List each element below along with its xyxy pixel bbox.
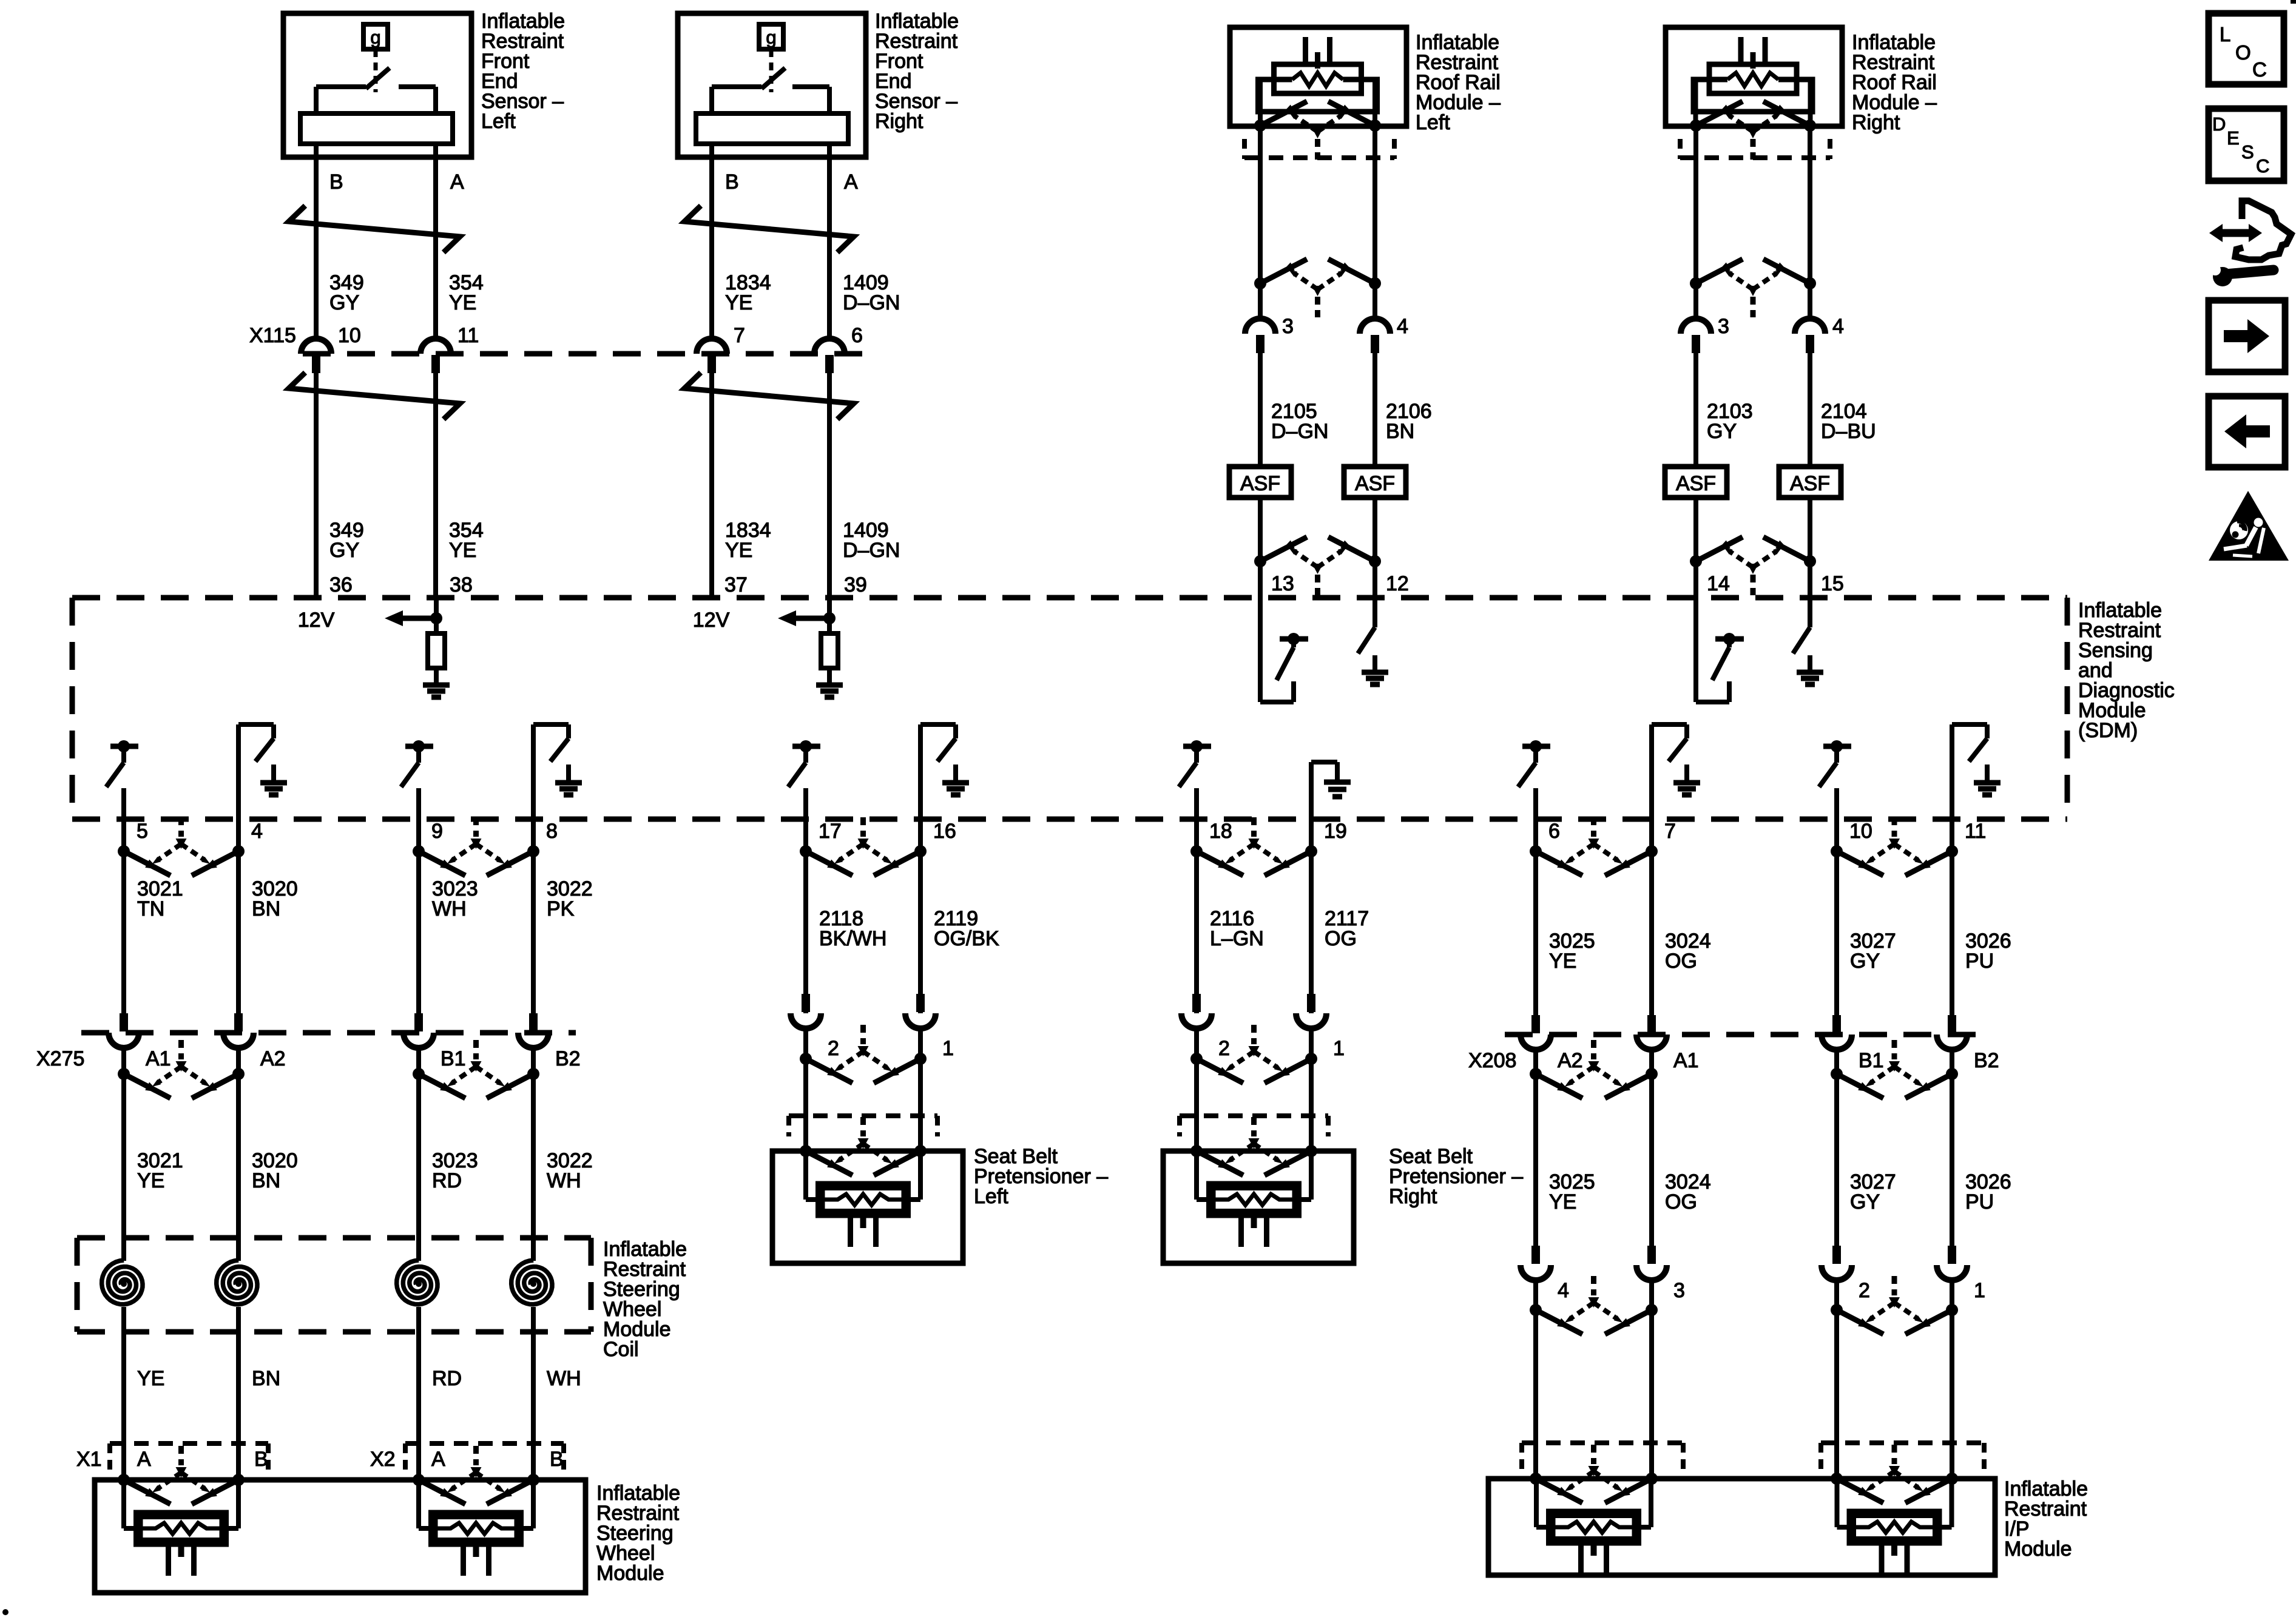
SDM module dashed box xyxy=(72,598,2067,819)
svg-text:ASF: ASF xyxy=(1240,472,1280,495)
wire 3027 GY (below X208) xyxy=(1834,1050,1839,1246)
pretensioner left pin 1 terminal xyxy=(905,994,936,1028)
svg-text:E: E xyxy=(2227,127,2240,149)
switch contact (pin 13 loop) xyxy=(1277,633,1308,680)
I/P right in-line connector dashed box xyxy=(1821,1443,1984,1473)
connector X275 pin B1 terminal xyxy=(403,1013,434,1048)
wire pin 39 interior segment xyxy=(827,598,832,633)
SDM passenger squib switch (pin 10) xyxy=(1819,740,1851,819)
label: Inflatable Restraint Steering Wheel Module Coil xyxy=(603,1238,687,1361)
SDM I/P squib switch (pin 6) xyxy=(1518,740,1550,819)
label: Seat Belt Pretensioner - Left xyxy=(974,1145,1108,1208)
svg-text:OG: OG xyxy=(1325,927,1357,950)
inflatable restraint steering wheel module box xyxy=(95,1480,586,1593)
wire 3024 OG (below X208) xyxy=(1649,1050,1654,1246)
pretensioner right in-line connector dashed box xyxy=(1180,1116,1328,1136)
shorting clip at pretensioner left connector xyxy=(800,1117,927,1175)
svg-text:Left: Left xyxy=(974,1185,1008,1208)
wire label 3022 PK xyxy=(547,877,593,920)
ground (SDM internal, pin 38) xyxy=(423,668,450,697)
wire label 3024 OG xyxy=(1665,930,1711,973)
label: Inflatable Restraint Steering Wheel Module xyxy=(596,1482,680,1585)
front end sensor left box xyxy=(283,13,471,157)
svg-text:OG: OG xyxy=(1665,1190,1697,1214)
SDM pretensioner left switch (pin 17) xyxy=(788,740,820,819)
shorting clip below SDM pins 5/4 xyxy=(118,817,245,876)
twisted pair symbol (sensor right upper) xyxy=(684,206,854,252)
svg-text:X2: X2 xyxy=(370,1448,396,1471)
wire label 2106 BN xyxy=(1386,400,1432,443)
airbag warning triangle icon xyxy=(2209,491,2289,561)
svg-text:B2: B2 xyxy=(1974,1049,1999,1072)
svg-text:X115: X115 xyxy=(249,324,296,347)
wire 3022 PK xyxy=(531,819,536,1013)
front end sensor left g symbol xyxy=(363,24,388,49)
wire label 2104 D-BU xyxy=(1821,400,1876,443)
switch contact (pin 14 loop) xyxy=(1712,633,1744,680)
shorting clip above pins 3/4 (right) xyxy=(1690,259,1816,317)
svg-text:Module: Module xyxy=(2004,1538,2072,1561)
svg-text:WH: WH xyxy=(547,1367,581,1390)
roof rail right in-line connector dashed box xyxy=(1680,139,1830,159)
wire RD (below coil) xyxy=(416,1307,421,1480)
shorting clip below X208 A2/A1 xyxy=(1530,1040,1658,1098)
page mark dot xyxy=(2,1609,8,1615)
svg-text:12: 12 xyxy=(1386,572,1409,595)
ASF box (wire 2105) xyxy=(1229,467,1291,498)
svg-text:37: 37 xyxy=(724,573,748,596)
switch lever (pin 15) xyxy=(1793,627,1810,653)
wire to pretensioner right (1) xyxy=(1309,1028,1314,1151)
svg-text:B: B xyxy=(254,1448,268,1471)
svg-text:Left: Left xyxy=(1416,111,1450,134)
wire label 3023 WH xyxy=(432,877,478,920)
connector X208 pin B1 terminal xyxy=(1822,1015,1852,1050)
connector X115 pin 10 terminal xyxy=(301,339,331,373)
svg-text:4: 4 xyxy=(1558,1279,1569,1302)
wire 3025 YE xyxy=(1533,819,1538,1015)
wire label 3026 PU xyxy=(1965,930,2011,973)
pin 14 interior hook wire xyxy=(1696,598,1729,702)
front end sensor left element xyxy=(300,113,453,144)
label: Inflatable Restraint Roof Rail Module - Left xyxy=(1416,31,1501,134)
shorting clip below pretensioner left pins xyxy=(800,1025,927,1083)
shorting clip below SDM pins 6/7 xyxy=(1530,817,1658,876)
I/P airbag squib left xyxy=(1536,1479,1651,1575)
svg-text:11: 11 xyxy=(1965,820,1986,843)
SDM pretensioner right return hook and ground (pin 19) xyxy=(1311,762,1351,819)
wire label 354 YE xyxy=(449,271,484,314)
ground (SDM internal, pin 15) xyxy=(1797,655,1823,684)
wire label 3025 YE (2) xyxy=(1549,1170,1595,1214)
svg-text:B1: B1 xyxy=(1859,1049,1884,1072)
SDM driver squib switch (pin 5) xyxy=(106,740,138,819)
wire 354 YE lower segment xyxy=(433,373,438,598)
wire 2117 OG xyxy=(1309,819,1314,1013)
wire 2105 D-GN lower segment xyxy=(1258,498,1263,598)
wire label 3022 WH xyxy=(547,1149,593,1192)
wire 2103 GY upper segment xyxy=(1693,126,1698,319)
svg-text:GY: GY xyxy=(1707,420,1737,443)
wire label 3026 PU (2) xyxy=(1965,1170,2011,1214)
pretensioner right pin 1 terminal xyxy=(1296,994,1326,1028)
roof rail left pin 3 terminal xyxy=(1245,319,1275,353)
svg-text:X1: X1 xyxy=(76,1448,102,1471)
svg-text:YE: YE xyxy=(1549,1190,1576,1214)
svg-text:GY: GY xyxy=(329,539,359,562)
svg-text:A: A xyxy=(431,1448,445,1471)
svg-text:Left: Left xyxy=(481,110,516,133)
resistor (SDM internal, pin 39) xyxy=(821,633,838,668)
label: Seat Belt Pretensioner - Right xyxy=(1389,1145,1523,1208)
svg-text:RD: RD xyxy=(432,1169,462,1192)
wire 2119 OG/BK xyxy=(918,819,923,1013)
shorting clip below SDM pins 9/8 xyxy=(413,817,539,876)
wire label 1409 D-GN (lower) xyxy=(843,519,900,562)
svg-text:3: 3 xyxy=(1718,315,1729,338)
shorting clip below SDM pins 10/11 xyxy=(1831,817,1958,876)
svg-text:PK: PK xyxy=(547,897,575,920)
shorting clip below I/P pins 4/3 xyxy=(1530,1276,1658,1334)
seat belt pretensioner right box xyxy=(1163,1151,1354,1263)
LOC icon box xyxy=(2209,13,2284,84)
wire BN (below coil) xyxy=(236,1307,241,1480)
svg-text:17: 17 xyxy=(819,820,842,843)
connector X115 pin 11 terminal xyxy=(420,339,451,373)
twisted pair symbol (sensor left lower) xyxy=(289,373,460,419)
shorting clip below I/P pins 2/1 xyxy=(1831,1276,1958,1334)
svg-text:OG/BK: OG/BK xyxy=(934,927,999,950)
svg-text:A2: A2 xyxy=(260,1047,286,1070)
coil (wire 3023) xyxy=(397,1260,437,1305)
svg-text:1: 1 xyxy=(942,1037,954,1060)
svg-text:D–GN: D–GN xyxy=(843,291,900,314)
wire label 3020 BN xyxy=(252,877,298,920)
svg-text:ASF: ASF xyxy=(1790,472,1830,495)
wire to pretensioner left (1) xyxy=(918,1028,923,1151)
wire label 2118 BK/WH xyxy=(819,907,886,950)
svg-text:2: 2 xyxy=(1859,1279,1870,1302)
front end sensor right switch xyxy=(712,49,829,113)
front end sensor left switch xyxy=(316,49,436,113)
svg-text:GY: GY xyxy=(1850,950,1880,973)
roof rail right pin 4 terminal xyxy=(1795,319,1825,353)
connector X1 dashed box xyxy=(110,1443,268,1473)
pin 13 interior hook wire xyxy=(1260,598,1294,702)
svg-text:WH: WH xyxy=(432,897,467,920)
twisted pair symbol (sensor left upper) xyxy=(289,206,460,252)
wire 2104 D-BU mid segment xyxy=(1808,353,1812,467)
switch lever (pin 12) xyxy=(1358,627,1375,653)
svg-text:O: O xyxy=(2235,41,2251,64)
svg-text:YE: YE xyxy=(449,539,476,562)
pretensioner left pin 2 terminal xyxy=(791,994,821,1028)
svg-text:1: 1 xyxy=(1333,1037,1345,1060)
wire 2118 BK/WH xyxy=(803,819,808,1013)
svg-text:X275: X275 xyxy=(36,1047,84,1070)
shorting clip at pretensioner right connector xyxy=(1190,1117,1317,1175)
svg-text:YE: YE xyxy=(137,1367,164,1390)
svg-text:B: B xyxy=(725,170,739,194)
SDM pretensioner right switch (pin 18) xyxy=(1179,740,1211,819)
wire label 349 GY (lower) xyxy=(329,519,364,562)
svg-text:4: 4 xyxy=(251,820,263,843)
svg-text:YE: YE xyxy=(449,291,476,314)
svg-text:Right: Right xyxy=(1389,1185,1437,1208)
svg-text:Coil: Coil xyxy=(603,1338,639,1361)
shorting clip below pretensioner right pins xyxy=(1190,1025,1317,1083)
wire 3027 GY xyxy=(1834,819,1839,1015)
voltage arrow at pin 39 xyxy=(778,610,829,626)
front end sensor right box xyxy=(678,13,866,157)
svg-text:14: 14 xyxy=(1707,572,1730,595)
wire label 3020 BN (2) xyxy=(252,1149,298,1192)
svg-text:D–BU: D–BU xyxy=(1821,420,1876,443)
ASF box (wire 2106) xyxy=(1344,467,1406,498)
svg-text:7: 7 xyxy=(734,324,745,347)
shorting clip at I/P module connector (right) xyxy=(1831,1445,1958,1503)
wire pin 38 interior segment xyxy=(434,598,439,633)
svg-text:5: 5 xyxy=(137,820,148,843)
SDM driver squib 2 return switch and ground (pin 8) xyxy=(533,724,582,819)
wire to pretensioner left (2) xyxy=(803,1028,808,1151)
label: Inflatable Restraint Sensing and Diagnostic Module (SDM) xyxy=(2078,599,2175,742)
wire 2106 BN upper segment xyxy=(1373,126,1377,319)
page corner mark xyxy=(2291,0,2296,4)
svg-text:C: C xyxy=(2256,155,2269,177)
svg-text:S: S xyxy=(2241,141,2254,163)
seat belt pretensioner left squib xyxy=(806,1151,920,1247)
wire label 354 YE (lower) xyxy=(449,519,484,562)
svg-text:15: 15 xyxy=(1821,572,1844,595)
driver airbag squib 1 xyxy=(124,1480,238,1576)
svg-text:B: B xyxy=(329,170,343,194)
seat belt pretensioner right squib xyxy=(1197,1151,1311,1247)
svg-text:YE: YE xyxy=(137,1169,164,1192)
wire label 3023 RD xyxy=(432,1149,478,1192)
wire label 2119 OG/BK xyxy=(934,907,999,950)
wire label 1834 YE (lower) xyxy=(725,519,771,562)
shorting clip below X275 B1/B2 xyxy=(413,1040,539,1098)
svg-text:YE: YE xyxy=(725,539,752,562)
wire 3020 BN (below X275) xyxy=(236,1048,241,1261)
svg-text:PU: PU xyxy=(1965,950,1994,973)
wire 2103 GY lower segment xyxy=(1693,498,1698,598)
wire label 2117 OG xyxy=(1325,907,1369,950)
wire to I/P module (4) xyxy=(1533,1280,1538,1479)
shorting clip below X208 B1/B2 xyxy=(1831,1040,1958,1098)
svg-text:YE: YE xyxy=(1549,950,1576,973)
label: Inflatable Restraint Roof Rail Module - Right xyxy=(1852,31,1937,134)
svg-text:PU: PU xyxy=(1965,1190,1994,1214)
connector X208 dashed line xyxy=(1505,1032,1978,1038)
coil (wire 3021) xyxy=(102,1260,143,1305)
wire 2105 D-GN upper segment xyxy=(1258,126,1263,319)
svg-text:6: 6 xyxy=(1548,820,1560,843)
wire 3023 RD xyxy=(416,1048,421,1261)
shorting clip at steering module connector X1 xyxy=(118,1446,245,1504)
svg-text:9: 9 xyxy=(431,820,443,843)
SDM driver squib return switch and ground (pin 4) xyxy=(238,724,287,819)
connector X275 pin A1 terminal xyxy=(109,1013,139,1048)
SDM I/P squib return switch and ground (pin 7) xyxy=(1652,724,1700,819)
svg-text:BK/WH: BK/WH xyxy=(819,927,886,950)
DESC icon box xyxy=(2209,109,2284,181)
connector X115 pin 6 terminal xyxy=(814,339,845,373)
svg-text:38: 38 xyxy=(450,573,473,596)
wire label 1834 YE xyxy=(725,271,771,314)
shorting clip above pins 3/4 (left) xyxy=(1254,259,1381,317)
ASF box (wire 2103) xyxy=(1665,467,1727,498)
svg-text:BN: BN xyxy=(252,1367,280,1390)
wire WH (below coil) xyxy=(531,1307,536,1480)
wire label 3027 GY (2) xyxy=(1850,1170,1896,1214)
shorting clip below SDM pins 17/16 xyxy=(800,817,927,876)
svg-text:4: 4 xyxy=(1397,315,1408,338)
svg-text:18: 18 xyxy=(1209,820,1232,843)
connector X208 pin A2 terminal xyxy=(1521,1015,1551,1050)
wire label 2116 L-GN xyxy=(1210,907,1264,950)
svg-text:13: 13 xyxy=(1271,572,1294,595)
wire 2105 D-GN mid segment xyxy=(1258,353,1263,467)
svg-text:11: 11 xyxy=(458,324,479,347)
shorting clip below SDM pins 18/19 xyxy=(1190,817,1317,876)
inflatable restraint roof rail module right box xyxy=(1666,27,1842,126)
coil (wire 3022) xyxy=(512,1260,552,1305)
connector X208 pin B2 terminal xyxy=(1937,1015,1967,1050)
back arrow icon box xyxy=(2209,396,2285,467)
SDM passenger squib return switch and ground (pin 11) xyxy=(1952,724,2001,819)
ground (SDM internal, pin 39) xyxy=(816,668,843,697)
svg-text:A: A xyxy=(844,170,858,194)
wire label 3024 OG (2) xyxy=(1665,1170,1711,1214)
connector X275 dashed line xyxy=(81,1030,576,1036)
ASF box (wire 2104) xyxy=(1779,467,1841,498)
wire 3021 TN xyxy=(121,819,126,1013)
harness repair icon (double arrow, connector outline and wrench) xyxy=(2209,201,2291,286)
svg-text:39: 39 xyxy=(844,573,867,596)
wire YE xyxy=(121,1307,126,1480)
svg-text:L: L xyxy=(2220,23,2230,46)
svg-text:g: g xyxy=(766,27,776,48)
svg-text:6: 6 xyxy=(851,324,863,347)
svg-text:GY: GY xyxy=(1850,1190,1880,1214)
svg-text:ASF: ASF xyxy=(1355,472,1395,495)
junction dot pin 38 xyxy=(430,612,442,624)
shorting clip at roof rail left module connector xyxy=(1254,101,1381,160)
svg-text:BN: BN xyxy=(252,897,280,920)
svg-text:10: 10 xyxy=(1849,820,1872,843)
wire 2116 L-GN xyxy=(1194,819,1199,1013)
wire 3022 WH (below X275) xyxy=(531,1048,536,1261)
wire label 3021 TN xyxy=(137,877,183,920)
svg-text:BN: BN xyxy=(252,1169,280,1192)
svg-text:2: 2 xyxy=(1218,1037,1230,1060)
resistor (SDM internal, pin 38) xyxy=(428,633,445,668)
inflatable restraint roof rail module left box xyxy=(1230,27,1406,126)
svg-text:10: 10 xyxy=(338,324,361,347)
svg-text:A: A xyxy=(137,1448,151,1471)
wire 3021 YE xyxy=(121,1048,126,1261)
wire 3024 OG xyxy=(1649,819,1654,1015)
I/P module pin 3 terminal xyxy=(1636,1246,1667,1280)
shorting clip below X275 A1/A2 xyxy=(118,1040,245,1098)
svg-text:X208: X208 xyxy=(1468,1049,1516,1072)
junction dot pin 39 xyxy=(823,612,836,624)
svg-text:2: 2 xyxy=(828,1037,839,1060)
wire to pretensioner right (2) xyxy=(1194,1028,1199,1151)
wire to I/P module (2) xyxy=(1834,1280,1839,1479)
svg-text:A: A xyxy=(450,170,464,194)
connector X115 pin 7 terminal xyxy=(697,339,727,373)
svg-text:D–GN: D–GN xyxy=(843,539,900,562)
shorting clip above SDM pins 13/12 xyxy=(1254,537,1381,595)
roof rail left in-line connector dashed box xyxy=(1244,139,1394,159)
wire 354 YE upper segment xyxy=(433,144,438,339)
connector X275 pin A2 terminal xyxy=(223,1013,254,1048)
svg-text:C: C xyxy=(2252,58,2267,81)
wire 349 GY upper segment xyxy=(314,144,319,339)
inflatable restraint I/P module box xyxy=(1488,1479,1995,1575)
front end sensor right g symbol xyxy=(759,24,783,49)
svg-text:B2: B2 xyxy=(555,1047,581,1070)
I/P left in-line connector dashed box xyxy=(1522,1443,1683,1473)
svg-text:4: 4 xyxy=(1832,315,1844,338)
SDM pretensioner left return switch and ground (pin 16) xyxy=(920,724,969,819)
svg-text:L–GN: L–GN xyxy=(1210,927,1264,950)
svg-text:19: 19 xyxy=(1324,820,1347,843)
svg-text:TN: TN xyxy=(137,897,164,920)
wire label 2103 GY xyxy=(1707,400,1753,443)
wire 349 GY lower segment xyxy=(314,373,319,598)
label: Inflatable Restraint Front End Sensor - Right xyxy=(875,10,959,133)
ground (SDM internal, pin 12) xyxy=(1362,655,1388,684)
wire 3025 YE (below X208) xyxy=(1533,1050,1538,1246)
svg-text:1: 1 xyxy=(1974,1279,1985,1302)
pin 12 interior wire xyxy=(1373,598,1377,627)
wire to I/P module (1) xyxy=(1950,1280,1954,1479)
svg-text:12V: 12V xyxy=(693,609,730,632)
connector X208 pin A1 terminal xyxy=(1636,1015,1667,1050)
wire label 349 GY xyxy=(329,271,364,314)
svg-text:3: 3 xyxy=(1673,1279,1685,1302)
shorting clip above SDM pins 14/15 xyxy=(1690,537,1816,595)
wire label 3025 YE xyxy=(1549,930,1595,973)
wire 3023 WH xyxy=(416,819,421,1013)
wire 2106 BN mid segment xyxy=(1373,353,1377,467)
svg-text:Right: Right xyxy=(875,110,923,133)
wire 1834 YE lower segment xyxy=(709,373,714,598)
wire label 3021 YE xyxy=(137,1149,183,1192)
svg-text:3: 3 xyxy=(1282,315,1294,338)
svg-text:B1: B1 xyxy=(441,1047,466,1070)
svg-text:B: B xyxy=(550,1448,564,1471)
svg-text:D: D xyxy=(2212,113,2226,135)
wire 3026 PU (below X208) xyxy=(1950,1050,1954,1246)
shorting clip at I/P module connector (left) xyxy=(1530,1445,1658,1503)
I/P module pin 4 terminal xyxy=(1521,1246,1551,1280)
roof rail left pin 4 terminal xyxy=(1360,319,1390,353)
svg-text:A1: A1 xyxy=(1673,1049,1699,1072)
svg-text:7: 7 xyxy=(1664,820,1676,843)
wire 2103 GY mid segment xyxy=(1693,353,1698,467)
roof rail module right inflator squib xyxy=(1693,37,1812,126)
shorting clip at steering module connector X2 xyxy=(413,1446,539,1504)
I/P module pin 2 terminal xyxy=(1822,1246,1852,1280)
forward arrow icon box xyxy=(2209,300,2285,372)
pretensioner right pin 2 terminal xyxy=(1181,994,1212,1028)
label: Inflatable Restraint I/P Module xyxy=(2004,1477,2088,1561)
